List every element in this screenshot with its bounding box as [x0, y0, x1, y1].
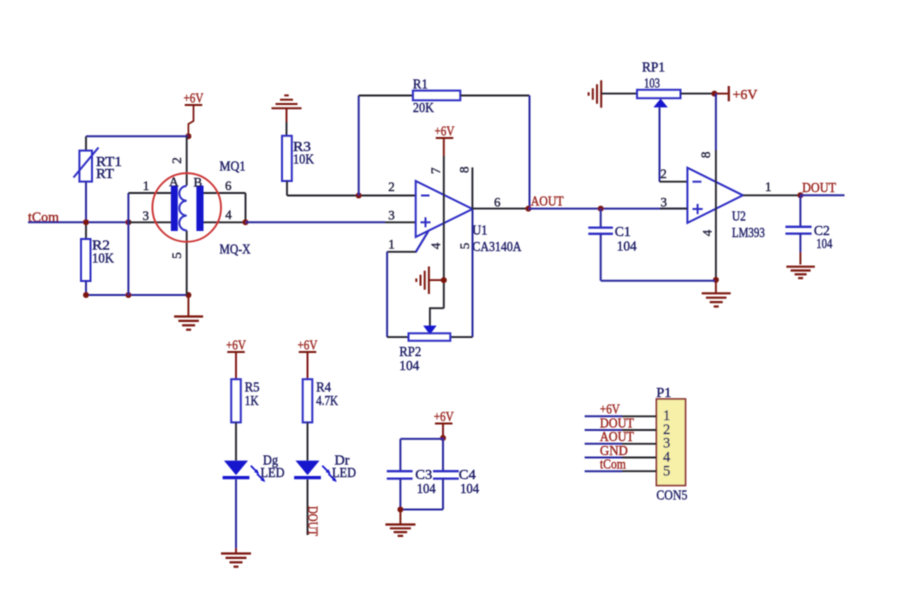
- svg-text:104: 104: [417, 481, 436, 496]
- svg-text:DOUT: DOUT: [600, 415, 635, 430]
- svg-text:4: 4: [225, 207, 232, 222]
- svg-text:LED: LED: [261, 465, 285, 480]
- svg-text:8: 8: [698, 152, 713, 159]
- svg-text:2: 2: [388, 179, 395, 194]
- svg-text:3: 3: [143, 208, 150, 223]
- svg-text:C1: C1: [615, 224, 631, 239]
- svg-text:1: 1: [143, 178, 150, 193]
- svg-text:104: 104: [460, 481, 479, 496]
- svg-text:+6V: +6V: [600, 402, 620, 417]
- svg-text:5: 5: [169, 252, 184, 259]
- svg-text:4: 4: [700, 229, 715, 236]
- svg-text:104: 104: [399, 358, 419, 373]
- svg-text:3: 3: [661, 194, 668, 209]
- svg-text:1: 1: [765, 179, 772, 194]
- svg-text:AOUT: AOUT: [600, 429, 635, 444]
- svg-text:A: A: [169, 174, 179, 189]
- svg-text:CA3140A: CA3140A: [472, 239, 521, 254]
- svg-text:10K: 10K: [293, 152, 314, 167]
- svg-text:DOUT: DOUT: [802, 180, 837, 195]
- svg-text:20K: 20K: [413, 100, 434, 115]
- svg-text:4: 4: [428, 242, 443, 249]
- svg-text:104: 104: [617, 238, 637, 253]
- svg-text:103: 103: [644, 76, 660, 91]
- svg-text:LED: LED: [332, 465, 356, 480]
- svg-text:C4: C4: [459, 467, 476, 482]
- svg-text:2: 2: [660, 166, 667, 181]
- svg-text:4.7K: 4.7K: [316, 393, 338, 408]
- svg-text:RT: RT: [96, 166, 115, 181]
- svg-text:MQ1: MQ1: [220, 159, 246, 174]
- svg-text:1: 1: [388, 236, 395, 251]
- svg-text:1K: 1K: [245, 393, 259, 408]
- svg-text:8: 8: [456, 167, 471, 174]
- svg-text:7: 7: [428, 167, 443, 174]
- svg-text:6: 6: [494, 195, 501, 210]
- svg-text:104: 104: [816, 236, 832, 251]
- svg-text:5: 5: [663, 463, 670, 479]
- svg-text:R1: R1: [413, 77, 428, 92]
- svg-text:P1: P1: [656, 385, 671, 400]
- svg-text:U2: U2: [732, 208, 746, 223]
- svg-text:2: 2: [169, 157, 184, 164]
- svg-text:B: B: [193, 175, 202, 190]
- svg-text:5: 5: [457, 243, 472, 250]
- svg-text:+6V: +6V: [733, 88, 758, 103]
- svg-text:3: 3: [388, 207, 395, 222]
- svg-text:LM393: LM393: [732, 225, 765, 240]
- svg-text:6: 6: [225, 178, 232, 193]
- svg-text:AOUT: AOUT: [531, 194, 565, 209]
- svg-text:U1: U1: [472, 223, 487, 238]
- svg-text:tCom: tCom: [600, 457, 626, 472]
- svg-text:C3: C3: [415, 467, 432, 482]
- svg-text:10K: 10K: [92, 251, 114, 266]
- svg-text:MQ-X: MQ-X: [220, 242, 251, 257]
- svg-text:RP2: RP2: [399, 344, 421, 359]
- svg-text:CON5: CON5: [656, 489, 687, 504]
- svg-text:DOUT: DOUT: [305, 506, 320, 537]
- svg-text:RP1: RP1: [642, 60, 665, 75]
